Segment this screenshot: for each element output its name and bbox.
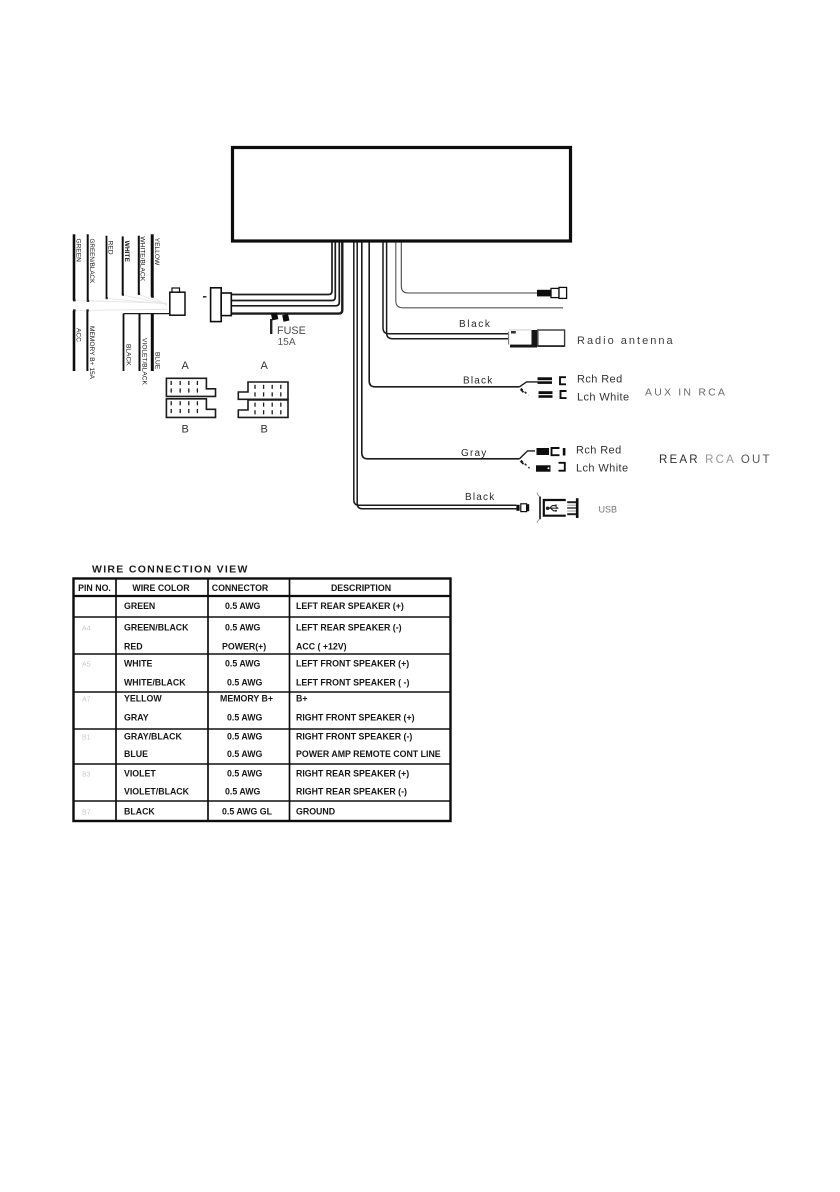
wire: [232, 243, 333, 295]
svg-text:Rch Red: Rch Red: [577, 374, 623, 386]
svg-text:LEFT FRONT SPEAKER ( -): LEFT FRONT SPEAKER ( -): [296, 678, 409, 688]
svg-text:Black: Black: [459, 319, 491, 330]
USB metal contacts: [576, 498, 579, 518]
pin dashes left pair: [171, 381, 197, 413]
svg-text:0.5 AWG: 0.5 AWG: [227, 713, 263, 723]
svg-text:YELLOW: YELLOW: [124, 694, 162, 704]
svg-text:A: A: [261, 360, 269, 372]
svg-text:RIGHT FRONT SPEAKER (+): RIGHT FRONT SPEAKER (+): [296, 713, 415, 723]
svg-text:GREEN/BLACK: GREEN/BLACK: [88, 239, 95, 285]
radio antenna wire (double line): [383, 243, 508, 339]
svg-text:Black: Black: [465, 492, 495, 503]
svg-text:CONNECTOR: CONNECTOR: [212, 583, 269, 593]
svg-text:ACC ( +12V): ACC ( +12V): [296, 642, 347, 652]
svg-text:VIOLET/BLACK: VIOLET/BLACK: [140, 338, 147, 386]
svg-text:RED: RED: [124, 642, 143, 652]
svg-text:USB: USB: [599, 505, 618, 515]
svg-text:BLUE: BLUE: [124, 749, 148, 759]
wire: [357, 243, 516, 509]
svg-text:WHITE: WHITE: [124, 659, 152, 669]
wire: [232, 243, 343, 314]
wire label bars: top group: [74, 234, 152, 300]
wire label bars: bottom group: [74, 311, 152, 372]
svg-text:B: B: [261, 424, 268, 436]
wire: [387, 243, 508, 339]
svg-text:LEFT REAR SPEAKER (+): LEFT REAR SPEAKER (+): [296, 601, 404, 611]
wire: [383, 243, 508, 334]
head unit (rear view): [233, 148, 571, 242]
svg-text:REAR RCA OUT: REAR RCA OUT: [659, 454, 772, 466]
pin dashes right pair: [255, 385, 281, 415]
bar terminal marks: [73, 293, 154, 312]
svg-text:WIRE CONNECTION VIEW: WIRE CONNECTION VIEW: [92, 564, 249, 576]
tick mark: [203, 296, 206, 298]
svg-text:Radio antenna: Radio antenna: [577, 335, 675, 347]
svg-text:GRAY/BLACK: GRAY/BLACK: [124, 732, 182, 742]
svg-text:FUSE: FUSE: [277, 325, 306, 337]
gray RCA wire: [362, 243, 520, 459]
svg-text:ACC: ACC: [75, 328, 82, 342]
AUX split wires: [520, 382, 538, 396]
svg-text:GROUND: GROUND: [296, 807, 335, 817]
svg-text:Lch White: Lch White: [576, 463, 629, 475]
REAR RCA plug L: [536, 465, 551, 471]
wire: [232, 243, 340, 306]
wire: [354, 243, 517, 506]
svg-text:GREEN/BLACK: GREEN/BLACK: [124, 623, 189, 633]
svg-text:Black: Black: [463, 376, 493, 387]
svg-text:B: B: [182, 424, 189, 436]
rotated wire labels bottom: [75, 326, 161, 386]
svg-text:A: A: [182, 360, 190, 372]
radio antenna connector: [509, 330, 565, 348]
svg-text:VIOLET/BLACK: VIOLET/BLACK: [124, 787, 190, 797]
faint pin numbers: [82, 626, 91, 817]
svg-text:0.5 AWG: 0.5 AWG: [227, 769, 263, 779]
svg-text:PIN NO.: PIN NO.: [78, 583, 111, 593]
svg-text:WHITE/BLACK: WHITE/BLACK: [138, 236, 145, 281]
wire harness bundle to ISO plug: [232, 243, 343, 314]
svg-text:RIGHT REAR SPEAKER (+): RIGHT REAR SPEAKER (+): [296, 769, 409, 779]
svg-text:0.5 AWG: 0.5 AWG: [225, 623, 261, 633]
svg-text:WHITE: WHITE: [123, 241, 130, 263]
REAR RCA plug R: [537, 448, 550, 455]
svg-text:Lch White: Lch White: [577, 392, 630, 404]
svg-text:WHITE/BLACK: WHITE/BLACK: [124, 678, 186, 688]
svg-text:RIGHT REAR SPEAKER (-): RIGHT REAR SPEAKER (-): [296, 787, 407, 797]
black AUX wire: [369, 243, 519, 387]
ISO connector A (right pair): [238, 382, 288, 417]
svg-text:RED: RED: [107, 241, 114, 255]
svg-text:LEFT FRONT SPEAKER (+): LEFT FRONT SPEAKER (+): [296, 659, 409, 669]
USB connector small: [516, 505, 519, 511]
ISO connector A (left pair): [166, 378, 215, 417]
faint fan lines top group: [74, 295, 167, 311]
table header: [78, 583, 391, 593]
thin wire to antenna plug: [401, 243, 537, 294]
svg-text:POWER(+): POWER(+): [222, 642, 266, 652]
AUX RCA plug L: [539, 391, 553, 398]
ISO plug at unit: [211, 288, 232, 322]
svg-text:B7: B7: [82, 810, 91, 817]
svg-text:DESCRIPTION: DESCRIPTION: [331, 583, 391, 593]
REAR split wires: [520, 451, 536, 468]
table body: [124, 601, 441, 817]
svg-text:15A: 15A: [278, 337, 296, 348]
svg-text:B3: B3: [82, 772, 91, 779]
wire: [232, 243, 336, 301]
svg-text:BLUE: BLUE: [153, 352, 160, 370]
svg-text:A7: A7: [82, 697, 91, 704]
harness plug: [170, 288, 185, 315]
svg-text:BLACK: BLACK: [124, 807, 155, 817]
svg-text:BLACK: BLACK: [124, 344, 131, 366]
svg-text:A4: A4: [82, 626, 91, 633]
svg-text:RIGHT FRONT SPEAKER (-): RIGHT FRONT SPEAKER (-): [296, 732, 412, 742]
svg-text:0.5 AWG: 0.5 AWG: [227, 749, 263, 759]
svg-text:B1: B1: [82, 735, 91, 742]
svg-text:0.5 AWG: 0.5 AWG: [225, 659, 261, 669]
svg-text:MEMORY B+: MEMORY B+: [220, 694, 273, 704]
svg-text:POWER AMP REMOTE CONT LINE: POWER AMP REMOTE CONT LINE: [296, 749, 441, 759]
svg-text:LEFT REAR SPEAKER (-): LEFT REAR SPEAKER (-): [296, 623, 402, 633]
fuse 15A: [271, 312, 306, 348]
svg-text:0.5 AWG: 0.5 AWG: [227, 732, 263, 742]
svg-text:0.5 AWG: 0.5 AWG: [225, 787, 261, 797]
svg-text:0.5 AWG: 0.5 AWG: [227, 678, 263, 688]
usb trident: [546, 505, 558, 512]
USB bracket: [539, 497, 541, 520]
svg-text:GREEN: GREEN: [124, 601, 155, 611]
svg-text:B+: B+: [296, 694, 308, 704]
svg-text:GREEN: GREEN: [75, 239, 82, 263]
table grid: [74, 579, 451, 822]
svg-text:A5: A5: [82, 662, 91, 669]
svg-text:0.5 AWG: 0.5 AWG: [225, 601, 261, 611]
harness lead line: [124, 313, 170, 315]
svg-text:GRAY: GRAY: [124, 713, 149, 723]
thin wire to mid line: [396, 243, 563, 308]
svg-text:MEMORY B+ 15A: MEMORY B+ 15A: [88, 326, 95, 380]
svg-text:Gray: Gray: [461, 448, 487, 459]
rotated wire labels top: [75, 236, 161, 284]
AUX RCA plug R: [538, 377, 553, 384]
svg-text:VIOLET: VIOLET: [124, 769, 156, 779]
svg-text:0.5 AWG GL: 0.5 AWG GL: [222, 807, 273, 817]
svg-text:Rch Red: Rch Red: [576, 445, 622, 457]
svg-text:WIRE COLOR: WIRE COLOR: [132, 583, 190, 593]
svg-text:YELLOW: YELLOW: [153, 238, 160, 266]
antenna plug: [537, 287, 567, 298]
USB wire (double line): [354, 243, 517, 509]
svg-text:AUX IN RCA: AUX IN RCA: [645, 387, 727, 399]
USB plug: [544, 500, 566, 516]
